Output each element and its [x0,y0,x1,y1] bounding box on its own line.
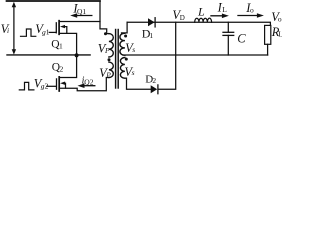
svg-text:2: 2 [152,76,156,85]
svg-text:Q1: Q1 [77,7,86,16]
svg-text:Q2: Q2 [84,77,93,86]
svg-text:o: o [250,5,254,14]
svg-text:2: 2 [45,81,49,90]
svg-text:L: L [222,5,227,14]
svg-text:o: o [278,15,282,24]
svg-text:L: L [197,5,205,19]
svg-text:1: 1 [149,31,153,40]
svg-text:s: s [132,68,135,77]
svg-text:1: 1 [46,27,50,36]
svg-text:L: L [278,29,282,38]
svg-text:2: 2 [60,64,64,73]
svg-text:1: 1 [59,41,63,50]
svg-text:P: P [104,46,110,55]
svg-text:D: D [180,14,185,22]
svg-text:P: P [105,70,111,79]
svg-text:i: i [7,26,9,35]
svg-text:C: C [237,31,246,45]
svg-text:s: s [132,45,135,54]
